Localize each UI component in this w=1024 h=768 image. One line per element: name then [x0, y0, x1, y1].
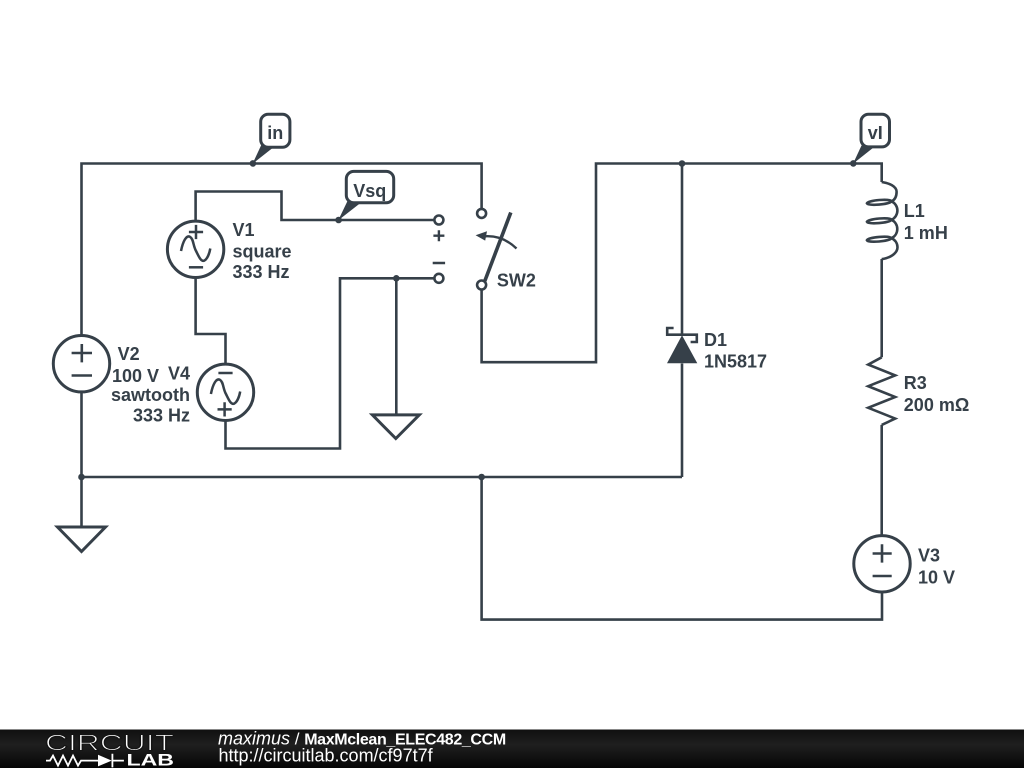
- svg-text:V2: V2: [118, 344, 140, 364]
- flag vI: [853, 114, 890, 164]
- wire D1 cathode branch: [681, 164, 684, 335]
- wire bottom ground net: [82, 476, 683, 479]
- ground right: [372, 415, 419, 439]
- svg-text:vI: vI: [868, 123, 883, 143]
- node dot gnd tap: [393, 275, 400, 282]
- wire switch bottom to top-right net: [482, 164, 882, 363]
- svg-text:Vsq: Vsq: [353, 181, 386, 201]
- svg-text:in: in: [267, 123, 283, 143]
- voltage source V3: [854, 536, 910, 592]
- SW2 polarity marks: [433, 230, 445, 263]
- wire right ground lead: [395, 278, 398, 415]
- svg-text:333 Hz: 333 Hz: [233, 262, 290, 282]
- svg-text:http://circuitlab.com/cf97t7f: http://circuitlab.com/cf97t7f: [219, 746, 434, 766]
- wire D1 anode lead: [681, 364, 684, 478]
- node dot in: [250, 160, 257, 167]
- svg-text:D1: D1: [704, 330, 727, 350]
- diode D1 triangle: [667, 335, 697, 363]
- resistor R3: [868, 357, 895, 425]
- voltage source V4: [197, 364, 253, 420]
- svg-text:R3: R3: [904, 373, 927, 393]
- node dot V2 bottom: [78, 474, 85, 481]
- wire L1 to R3: [880, 259, 883, 357]
- switch SW2 arrow: [481, 236, 517, 248]
- wire V1 bottom jog to V4 top: [196, 278, 226, 364]
- svg-text:V1: V1: [233, 220, 255, 240]
- logo squiggle resistor+diode: [46, 756, 98, 766]
- flag in: [253, 114, 290, 164]
- voltage source V2: [53, 336, 109, 392]
- wire SW2 minus to V4 bottom: [226, 278, 434, 448]
- svg-text:1 mH: 1 mH: [904, 223, 948, 243]
- flag Vsq: [338, 171, 393, 220]
- wire V1 top jog to SW2 plus: [196, 192, 434, 221]
- switch SW2 control + terminal: [434, 216, 443, 225]
- diode D1 schottky bar: [667, 328, 697, 342]
- inductor L1: [867, 182, 898, 259]
- switch SW2 control - terminal: [434, 274, 443, 283]
- node dot V3 loop: [478, 474, 485, 481]
- svg-text:L1: L1: [904, 201, 925, 221]
- switch SW2 blade: [485, 213, 511, 282]
- wire V2 bottom lead: [80, 392, 83, 477]
- node dot Vsq: [335, 217, 342, 224]
- wire left ground lead: [80, 477, 83, 527]
- svg-text:sawtooth: sawtooth: [111, 385, 190, 405]
- node dot vI: [850, 160, 857, 167]
- wire R3 to V3: [880, 425, 883, 536]
- voltage source V1: [167, 221, 223, 277]
- ground left: [58, 527, 106, 552]
- wire top-left net from V2 top to switch: [82, 164, 482, 336]
- svg-text:V3: V3: [918, 546, 940, 566]
- svg-text:10 V: 10 V: [918, 567, 955, 587]
- svg-text:LAB: LAB: [127, 751, 175, 768]
- svg-text:333 Hz: 333 Hz: [133, 405, 190, 425]
- svg-text:1N5817: 1N5817: [704, 351, 767, 371]
- node dot D1 top: [679, 160, 686, 167]
- svg-text:SW2: SW2: [497, 270, 536, 290]
- svg-text:square: square: [233, 242, 292, 262]
- svg-text:100 V: 100 V: [112, 366, 159, 386]
- wire V3 bottom loop: [482, 477, 882, 620]
- svg-text:V4: V4: [168, 363, 190, 383]
- svg-text:200 mΩ: 200 mΩ: [904, 395, 969, 415]
- switch SW2 pole terminals: [477, 209, 486, 218]
